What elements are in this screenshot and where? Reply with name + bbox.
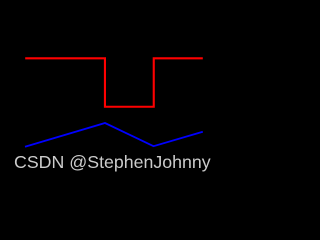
svg-text:CSDN @StephenJohnny: CSDN @StephenJohnny xyxy=(14,152,211,172)
